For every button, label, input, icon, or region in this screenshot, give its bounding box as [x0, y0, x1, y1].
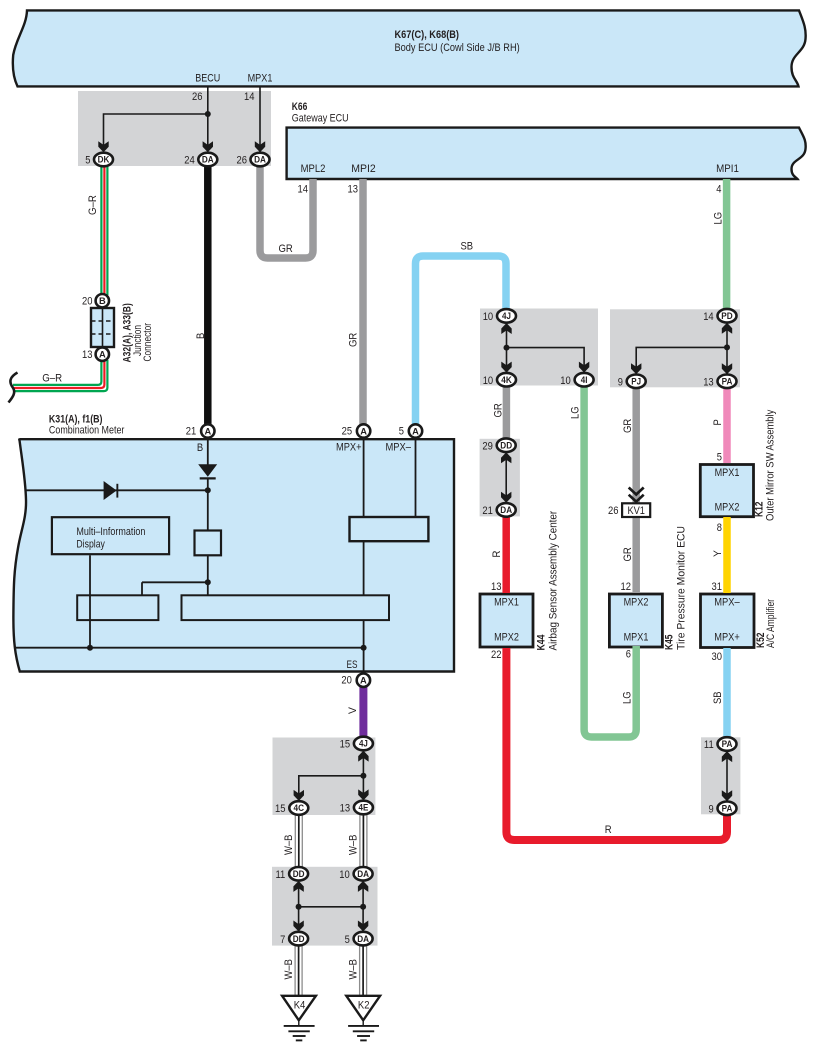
- KV1 connector box: [622, 503, 650, 517]
- Multi-Information Display box: [52, 517, 169, 554]
- svg-text:MPX–: MPX–: [714, 597, 740, 609]
- arrow up into 4J(10): [501, 323, 511, 334]
- svg-text:MPX2: MPX2: [494, 631, 519, 643]
- svg-text:14: 14: [298, 184, 309, 196]
- wire GR Gateway MPI2 down to meter 25(A): [359, 179, 367, 428]
- svg-text:GR: GR: [348, 333, 360, 347]
- svg-text:4: 4: [716, 184, 721, 196]
- connector oval DA pin10: [354, 867, 373, 881]
- svg-text:13: 13: [491, 581, 502, 593]
- junction connector circle 20(B): [96, 294, 109, 307]
- svg-text:W–B: W–B: [348, 959, 360, 980]
- svg-text:PD: PD: [721, 311, 733, 321]
- svg-text:B: B: [99, 296, 106, 306]
- svg-text:24: 24: [184, 154, 195, 166]
- connector shield box 4J/4C/4E: [273, 738, 376, 816]
- MPX receiver box: [350, 517, 429, 541]
- svg-text:26: 26: [237, 154, 248, 166]
- wire branch to PJ: [636, 347, 727, 373]
- wire SB K52 pin 30 down to PA(11): [723, 648, 731, 742]
- connector oval 4I pin10: [575, 373, 594, 387]
- meter pin circle 20(A): [357, 674, 370, 687]
- ECU box K12 Outer Mirror SW Assembly: [700, 465, 753, 517]
- svg-text:Display: Display: [76, 539, 105, 551]
- wire G-R vertical DK to junction connector: [13, 164, 107, 391]
- svg-text:LG: LG: [622, 691, 634, 704]
- svg-text:P: P: [712, 419, 724, 425]
- ECU box K67(C),K68(B) Body ECU: [13, 10, 806, 86]
- svg-text:4I: 4I: [581, 375, 588, 385]
- wire R K44 pin 22 down, right, up to PA(9): [506, 648, 727, 840]
- svg-text:MPX+: MPX+: [336, 442, 362, 454]
- svg-text:4E: 4E: [359, 803, 369, 813]
- arrow up into PD: [722, 323, 732, 334]
- svg-text:GR: GR: [622, 547, 634, 561]
- svg-text:B: B: [197, 442, 203, 454]
- wire W-B 4C down to DD(11): [295, 814, 367, 996]
- connector oval PJ pin9: [627, 375, 646, 389]
- ECU box K45 Tire Pressure Monitor ECU: [609, 594, 662, 647]
- svg-text:4K: 4K: [501, 375, 512, 385]
- connector oval 4E pin13: [354, 801, 373, 815]
- svg-text:14: 14: [703, 311, 714, 323]
- svg-text:MPX1: MPX1: [494, 597, 519, 609]
- connector oval PA pin11: [718, 737, 737, 751]
- svg-text:5: 5: [717, 452, 722, 464]
- svg-text:A: A: [360, 676, 367, 686]
- svg-text:G–R: G–R: [87, 195, 99, 215]
- small square box: [195, 531, 222, 556]
- svg-text:GR: GR: [622, 419, 634, 433]
- svg-text:10: 10: [339, 869, 350, 881]
- connector oval DD pin29: [497, 438, 516, 452]
- junction dot 4J(15) branch: [360, 773, 366, 779]
- arrow up into 4J(15): [358, 751, 368, 762]
- junction dot DA column: [360, 904, 366, 910]
- svg-text:G–R: G–R: [42, 372, 62, 384]
- svg-text:MPI1: MPI1: [716, 163, 739, 175]
- wire MPX- column: [415, 439, 417, 517]
- arrow into DD(7): [293, 921, 303, 932]
- svg-text:MPI2: MPI2: [351, 163, 376, 175]
- arrow into DA(26): [255, 141, 265, 152]
- svg-text:A/C Amplifier: A/C Amplifier: [765, 599, 777, 648]
- wire SB U-shape meter 5(A) up-right to 4J(10): [416, 256, 507, 428]
- ECU box K31(A),f1(B) Combination Meter: [13, 439, 454, 672]
- wire R DA(21) down to K44 pin 13: [502, 514, 510, 593]
- svg-text:SB: SB: [461, 241, 474, 253]
- junction dot BECU branch: [205, 111, 211, 117]
- wire 4J(15) down with branch: [362, 751, 364, 800]
- wire V meter 20(A) down to 4J(15): [359, 685, 367, 740]
- connector shield box 4J/4K/4I: [480, 309, 598, 386]
- svg-text:11: 11: [704, 739, 714, 751]
- svg-text:Multi–Information: Multi–Information: [76, 526, 145, 538]
- svg-text:9: 9: [709, 804, 714, 816]
- svg-text:5: 5: [345, 934, 350, 946]
- svg-text:13: 13: [340, 803, 351, 815]
- left lower box: [77, 595, 158, 620]
- arrow into PA(9): [722, 790, 732, 801]
- ground K4: [282, 996, 316, 1041]
- svg-text:MPX–: MPX–: [386, 442, 412, 454]
- meter pin circle 21(A): [201, 424, 214, 437]
- junction dot bus left: [87, 645, 93, 651]
- svg-text:A: A: [99, 350, 106, 360]
- svg-text:K45: K45: [664, 635, 676, 651]
- connector oval 4K pin10: [497, 373, 516, 387]
- svg-text:20: 20: [341, 674, 352, 686]
- svg-text:30: 30: [712, 651, 723, 663]
- ECU box K52 A/C Amplifier: [701, 594, 755, 648]
- svg-text:SB: SB: [712, 691, 724, 704]
- meter pin circle 5(A): [409, 424, 422, 437]
- connector oval DA pin24: [198, 153, 217, 167]
- ECU box K44 Airbag Sensor Assembly Center: [480, 594, 533, 647]
- svg-text:22: 22: [491, 649, 502, 661]
- svg-text:Body ECU (Cowl Side J/B RH): Body ECU (Cowl Side J/B RH): [395, 42, 520, 54]
- wire LG 4I down, right, up to K45 pin 6: [584, 384, 636, 737]
- junction dot at 582: [205, 579, 211, 585]
- connector oval PA pin9: [718, 802, 737, 816]
- svg-text:R: R: [491, 551, 503, 558]
- connector oval 4J pin10: [497, 309, 516, 323]
- svg-text:LG: LG: [713, 212, 725, 225]
- svg-text:PA: PA: [722, 804, 733, 814]
- connector oval DD pin7: [289, 932, 308, 946]
- svg-text:W–B: W–B: [283, 835, 295, 856]
- svg-text:DA: DA: [357, 869, 369, 879]
- wire 4J to 4K with branch: [506, 324, 508, 372]
- junction dot 4J branch: [504, 345, 510, 351]
- svg-text:5: 5: [399, 426, 404, 438]
- svg-text:31: 31: [712, 581, 723, 593]
- svg-text:DD: DD: [293, 869, 305, 879]
- diode vertical on B column: [87, 464, 367, 650]
- connector oval DA pin21: [497, 503, 516, 517]
- svg-text:25: 25: [342, 426, 353, 438]
- connector oval PA pin13: [718, 375, 737, 389]
- wire small square to junction: [207, 555, 209, 595]
- svg-text:12: 12: [621, 581, 632, 593]
- svg-text:29: 29: [482, 440, 493, 452]
- connector oval DK pin5: [94, 153, 113, 167]
- svg-text:K66: K66: [292, 101, 308, 113]
- junction dot DD column: [296, 904, 302, 910]
- wire branch to 4I: [507, 348, 585, 372]
- svg-text:R: R: [605, 824, 612, 836]
- svg-text:13: 13: [82, 349, 93, 361]
- svg-text:DD: DD: [293, 934, 305, 944]
- connector oval 4C pin15: [289, 801, 308, 815]
- KV1 chevrons: [629, 488, 644, 502]
- svg-text:PA: PA: [722, 739, 733, 749]
- junction dot below vertical diode: [205, 487, 211, 493]
- arrow into DA(21): [501, 492, 511, 503]
- svg-text:Gateway ECU: Gateway ECU: [292, 112, 349, 124]
- svg-text:BECU: BECU: [195, 73, 220, 85]
- svg-text:MPL2: MPL2: [301, 163, 326, 175]
- svg-text:Airbag Sensor Assembly Center: Airbag Sensor Assembly Center: [548, 511, 560, 651]
- wire DD(29) to DA(21): [505, 453, 507, 502]
- arrow into PA(13): [722, 363, 732, 374]
- arrow up into PA(11): [722, 751, 732, 762]
- connector shield box DD/DA (11,10,7,5): [272, 867, 378, 946]
- arrow up into DD(11): [293, 881, 303, 892]
- meter internal circuit: [15, 439, 416, 671]
- wire DA(10) to DA(5): [362, 881, 364, 931]
- connector shield box BECU/MPX1 (DK/DA/DA): [78, 91, 271, 166]
- svg-text:Y: Y: [712, 549, 724, 557]
- wire horizontal diode feed: [26, 489, 208, 491]
- wire B black DA(24) to meter 21(A): [204, 165, 212, 428]
- svg-text:Outer Mirror SW Assembly: Outer Mirror SW Assembly: [765, 409, 777, 521]
- svg-text:MPX+: MPX+: [714, 631, 740, 643]
- wire crossbar between DD and DA columns: [299, 906, 364, 908]
- svg-text:21: 21: [186, 426, 197, 438]
- wire GR PJ(9) down through KV1 to K45 pin 12: [632, 385, 640, 593]
- svg-text:10: 10: [560, 375, 571, 387]
- wire DD(11) to DD(7): [298, 881, 300, 931]
- arrow into 4E: [358, 789, 368, 800]
- arrow into 4C: [294, 790, 304, 801]
- svg-text:26: 26: [192, 91, 203, 103]
- wide lower box: [182, 595, 390, 620]
- svg-text:GR: GR: [493, 403, 505, 417]
- junction dot PD branch: [724, 344, 730, 350]
- junction connector A32(A),A33(B) body: [91, 308, 114, 347]
- diode horizontal on feed line: [104, 481, 117, 500]
- svg-text:4J: 4J: [502, 311, 511, 321]
- svg-text:A: A: [204, 426, 211, 436]
- wire GR 4K to DD(29): [503, 384, 511, 444]
- wire branch to 4C: [299, 776, 364, 801]
- svg-text:W–B: W–B: [283, 959, 295, 980]
- ground K2: [346, 996, 380, 1041]
- connector oval 4J pin15: [354, 737, 373, 751]
- arrow into 4K: [501, 362, 511, 373]
- arrow into DA(5): [358, 921, 368, 932]
- svg-text:A: A: [412, 426, 419, 436]
- svg-text:8: 8: [717, 522, 722, 534]
- wire BECU pin 26 down into shield box: [207, 87, 209, 151]
- svg-text:5: 5: [85, 154, 90, 166]
- svg-text:A: A: [360, 426, 367, 436]
- wire B column inside meter: [207, 439, 209, 464]
- svg-text:DA: DA: [202, 155, 214, 165]
- connector oval DA pin26: [251, 153, 270, 167]
- arrow into DA(24): [203, 141, 213, 152]
- svg-text:9: 9: [618, 377, 623, 389]
- svg-text:V: V: [347, 706, 359, 714]
- connector shield box PA/PA (11-9): [701, 737, 740, 814]
- wire MPX1 pin 14 down to DA(26): [259, 87, 261, 151]
- svg-text:13: 13: [348, 184, 359, 196]
- connector oval PD pin14: [718, 309, 737, 323]
- wire W-B DD(7) down to ground K4: [294, 944, 296, 996]
- svg-text:K67(C), K68(B): K67(C), K68(B): [395, 29, 460, 41]
- svg-text:PJ: PJ: [631, 377, 641, 387]
- svg-text:KV1: KV1: [627, 505, 645, 517]
- wire break S-mark at left: [9, 373, 18, 403]
- svg-text:MPX2: MPX2: [715, 502, 740, 514]
- arrow up into DD(29): [501, 452, 511, 463]
- wire branch to DK(5): [104, 114, 208, 151]
- svg-text:MPX1: MPX1: [624, 631, 649, 643]
- svg-text:DD: DD: [500, 440, 512, 450]
- svg-text:7: 7: [280, 934, 285, 946]
- arrow into PJ: [631, 363, 641, 374]
- junction connector internal grid: [91, 308, 114, 347]
- connector oval DA pin5: [354, 932, 373, 946]
- wire LG Gateway MPI1 down to PD(14): [723, 179, 731, 314]
- wire GR U-shape DA(26) to Gateway MPL2: [260, 165, 313, 258]
- wire G-R from junction connector A down-left to break: [13, 360, 101, 385]
- connector oval DD pin11: [289, 867, 308, 881]
- connector shield box PD/PJ/PA: [610, 309, 740, 387]
- svg-text:10: 10: [483, 311, 494, 323]
- svg-text:Tire Pressure Monitor ECU: Tire Pressure Monitor ECU: [676, 526, 688, 650]
- wire PD to PA: [726, 323, 728, 373]
- wire W-B DA(5) down to ground K2: [359, 944, 361, 996]
- meter pin circle 25(A): [357, 424, 370, 437]
- wire Y K12 pin 8 down to K52 pin 31: [723, 517, 731, 593]
- wire P PA(13) down to K12 pin 5: [723, 385, 731, 463]
- svg-text:10: 10: [483, 375, 494, 387]
- svg-text:K4: K4: [294, 1000, 306, 1012]
- svg-text:DA: DA: [357, 934, 369, 944]
- svg-text:11: 11: [276, 869, 286, 881]
- svg-text:DK: DK: [98, 155, 110, 165]
- svg-text:MPX1: MPX1: [248, 73, 273, 85]
- svg-text:K44: K44: [536, 634, 548, 651]
- svg-text:26: 26: [608, 505, 619, 517]
- svg-text:ES: ES: [347, 659, 358, 671]
- svg-text:W–B: W–B: [348, 835, 360, 856]
- svg-text:PA: PA: [722, 377, 733, 387]
- junction connector circle 13(A): [96, 348, 109, 361]
- svg-text:13: 13: [703, 377, 714, 389]
- svg-text:DA: DA: [500, 505, 512, 515]
- svg-text:B: B: [195, 333, 207, 339]
- svg-text:4C: 4C: [294, 803, 305, 813]
- bus wire ES: [15, 647, 364, 649]
- arrow up into DA(10): [358, 881, 368, 892]
- svg-text:21: 21: [482, 505, 493, 517]
- svg-text:Combination Meter: Combination Meter: [49, 425, 125, 437]
- wire MPX+ column: [363, 439, 365, 671]
- svg-text:15: 15: [275, 803, 286, 815]
- svg-text:6: 6: [626, 649, 631, 661]
- svg-text:4J: 4J: [359, 739, 368, 749]
- arrow into DK(5): [98, 141, 108, 152]
- ECU box K66 Gateway ECU: [287, 128, 806, 179]
- svg-text:Connector: Connector: [142, 323, 154, 362]
- svg-text:MPX1: MPX1: [715, 467, 740, 479]
- svg-text:20: 20: [82, 296, 93, 308]
- svg-text:GR: GR: [279, 243, 293, 255]
- wire W-B 4E down to DA(10): [359, 814, 361, 868]
- connector shield box DD/DA (29-21): [480, 439, 520, 517]
- wire MID down to bus: [89, 555, 91, 647]
- wire branch left to small box: [142, 582, 208, 595]
- junction dot bus right: [361, 645, 367, 651]
- svg-text:14: 14: [244, 91, 255, 103]
- svg-text:DA: DA: [254, 155, 266, 165]
- svg-text:15: 15: [340, 739, 351, 751]
- wire PA(11) to PA(9): [726, 752, 728, 801]
- arrow into 4I: [579, 362, 589, 373]
- svg-text:MPX2: MPX2: [624, 597, 649, 609]
- svg-text:K2: K2: [358, 1000, 370, 1012]
- svg-text:LG: LG: [570, 406, 582, 419]
